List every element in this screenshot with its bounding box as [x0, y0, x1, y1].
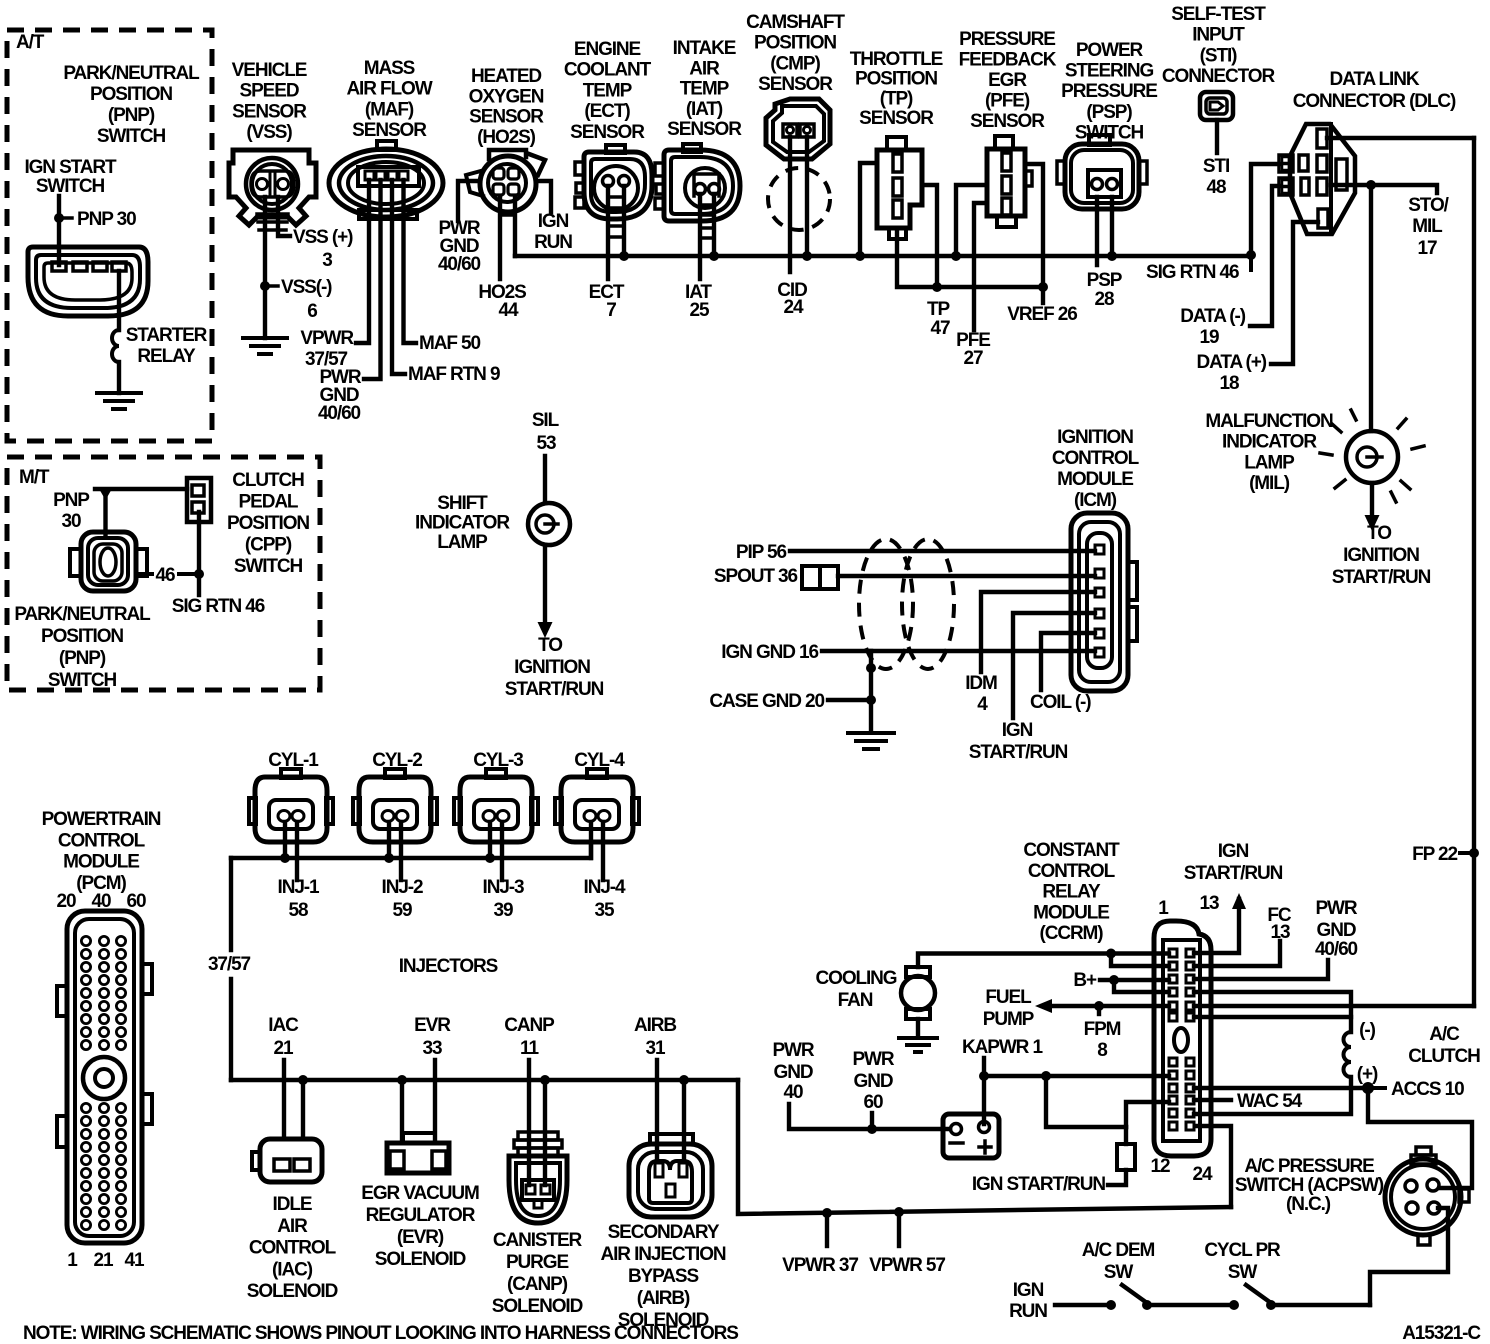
IAT pin bracket — [694, 174, 719, 196]
svg-text:DATA (+): DATA (+) — [1197, 352, 1267, 373]
svg-text:POSITION: POSITION — [227, 513, 309, 534]
svg-text:(PNP): (PNP) — [59, 648, 106, 669]
node IAC bus junction dot — [298, 1075, 308, 1085]
connector PNP switch (A/T) middle shell — [36, 255, 140, 308]
svg-text:(-): (-) — [1359, 1020, 1375, 1041]
svg-text:47: 47 — [931, 318, 950, 339]
svg-text:GND: GND — [854, 1071, 893, 1092]
wire B+ to CCRM pin 4 — [1114, 980, 1169, 992]
injector CYL-4 left tab — [555, 798, 562, 824]
svg-text:(HO2S): (HO2S) — [477, 127, 536, 148]
node injector bus dot CYL-2 — [384, 853, 394, 863]
wire CCRM right margin link — [1194, 1004, 1474, 1008]
CCRM oval slot — [1174, 1028, 1188, 1052]
svg-text:ENGINE: ENGINE — [574, 39, 641, 60]
AIRB cavity — [649, 1161, 692, 1203]
VSS boot — [257, 214, 288, 230]
svg-text:VPWR: VPWR — [300, 328, 354, 349]
wire MAF PWR GND — [364, 180, 381, 379]
DLC slot 4 — [1318, 209, 1328, 228]
svg-text:19: 19 — [1200, 327, 1219, 348]
svg-text:SENSOR: SENSOR — [667, 119, 742, 140]
wire PWR GND 40 stub — [789, 1104, 950, 1129]
CCRM pin R2 — [1186, 962, 1194, 970]
svg-text:(TP): (TP) — [880, 88, 913, 109]
node PNP 30 junction dot — [54, 213, 64, 223]
connector PSP outer shell — [1065, 144, 1139, 209]
node FP 22 junction dot — [1469, 848, 1479, 858]
connector AIRB top tab — [650, 1134, 693, 1144]
A/C clutch coil — [1344, 1032, 1351, 1077]
svg-text:PNP: PNP — [53, 490, 90, 511]
wire DLC STO/MIL — [1331, 185, 1437, 193]
node injector bus dot CYL-3 — [485, 853, 495, 863]
CCRM pin L8 — [1169, 1071, 1177, 1079]
svg-text:POWERTRAIN: POWERTRAIN — [42, 809, 161, 830]
PCM pin holes top block — [81, 936, 125, 1049]
connector injector CYL-4 outer shell — [561, 777, 633, 842]
svg-text:AIR: AIR — [277, 1216, 308, 1237]
svg-text:(ECT): (ECT) — [584, 101, 630, 122]
svg-text:35: 35 — [595, 900, 615, 921]
connector TP top tab — [887, 137, 906, 150]
ground symbol (cooling fan) — [899, 1038, 937, 1052]
PCM left tab 1 — [57, 986, 67, 1016]
svg-text:FPM: FPM — [1084, 1019, 1121, 1040]
CANP top bar 1 — [518, 1132, 558, 1140]
wire MAF VPWR 37/57 — [356, 180, 369, 343]
wire CANP right — [543, 1080, 547, 1185]
svg-text:IGN GND 16: IGN GND 16 — [721, 642, 818, 663]
wire HO2S 44 stub — [498, 196, 502, 279]
connector VSS inner ring 2 — [252, 164, 292, 204]
connector ECT inner circle — [594, 166, 638, 210]
pin 2 of PNP switch — [73, 262, 87, 271]
MAF pin 2 — [376, 171, 385, 180]
svg-text:IGNITION: IGNITION — [1343, 545, 1419, 566]
VSS pin 1 — [257, 179, 268, 190]
svg-text:A/T: A/T — [16, 32, 45, 53]
ICM pin 4 — [1095, 609, 1104, 618]
wire IDM 4 — [981, 592, 1095, 672]
battery terminal + — [979, 1122, 990, 1133]
wire ECT 7 stub — [606, 186, 610, 279]
IAT left tab 3 — [655, 198, 664, 209]
DLC left stub connector A — [1279, 155, 1293, 172]
connector PFE body — [987, 149, 1025, 216]
SPOUT inline connector — [802, 566, 838, 589]
ECT left tab 2 — [576, 183, 584, 193]
PFE slot 3 — [1002, 198, 1011, 215]
svg-text:PUMP: PUMP — [983, 1009, 1035, 1030]
svg-text:37/57: 37/57 — [208, 954, 251, 975]
svg-text:AIR INJECTION: AIR INJECTION — [600, 1244, 725, 1265]
svg-text:PWR: PWR — [772, 1040, 814, 1061]
svg-text:RELAY: RELAY — [1042, 882, 1101, 903]
svg-text:AIR FLOW: AIR FLOW — [346, 79, 432, 100]
CCRM pin R12 — [1186, 1122, 1194, 1130]
svg-text:EGR VACUUM: EGR VACUUM — [361, 1183, 479, 1204]
svg-text:FAN: FAN — [838, 990, 873, 1011]
CANP top bar 2 — [514, 1140, 562, 1148]
node TP 47 junction dot — [932, 282, 942, 292]
wire PIP 56 — [790, 549, 1095, 553]
svg-text:MAF 50: MAF 50 — [419, 333, 481, 354]
svg-text:(ICM): (ICM) — [1074, 490, 1117, 511]
node switch dot 3 — [1229, 1300, 1239, 1310]
ACPSW pin 4 — [1428, 1202, 1440, 1214]
svg-text:AIRB: AIRB — [634, 1015, 676, 1036]
CANP top bar 3 — [518, 1148, 558, 1156]
connector TP body — [877, 150, 922, 228]
wire CYCL PR SW to ACPSW — [1271, 1303, 1370, 1307]
connector CCRM inner shell — [1163, 940, 1200, 1141]
svg-text:PWR: PWR — [852, 1049, 894, 1070]
CCRM pin R8 — [1186, 1071, 1194, 1079]
svg-text:(VSS): (VSS) — [246, 122, 292, 143]
node injector bus dot CYL-1 — [280, 853, 290, 863]
shield dashed oval left — [859, 539, 913, 669]
svg-text:(CMP): (CMP) — [770, 53, 820, 74]
node KAPWR-CCRM junction dot — [1041, 1071, 1051, 1081]
CANP pin 1 — [526, 1185, 535, 1194]
node MIL arrowhead — [1365, 515, 1380, 531]
connector CPP switch body — [187, 478, 211, 522]
CCRM pin L2 — [1169, 962, 1177, 970]
wire DATA (+) 18 — [1271, 222, 1318, 364]
connector PNP switch (A/T) inner shell — [44, 263, 132, 300]
svg-text:GND: GND — [774, 1062, 813, 1083]
svg-text:TP: TP — [927, 299, 951, 320]
connector PSP top tab — [1089, 135, 1110, 145]
wire PSP 28 stub — [1095, 197, 1099, 265]
wire KAPWR branch down to fuse line — [1046, 1076, 1126, 1127]
wire DLC to MIL lamp — [1369, 185, 1373, 431]
SIL lamp bulb — [528, 503, 570, 545]
cooling fan motor bottom tab — [906, 1009, 930, 1019]
wire SIG RTN bus — [515, 254, 1251, 259]
MIL lamp filament — [1357, 447, 1377, 467]
svg-text:CONSTANT: CONSTANT — [1023, 840, 1120, 861]
connector ACPSW outer circle — [1385, 1159, 1461, 1235]
svg-text:CONTROL: CONTROL — [1052, 448, 1140, 469]
svg-text:VSS(-): VSS(-) — [281, 277, 332, 298]
HO2S pin 2 — [508, 168, 519, 179]
MAF top tab — [377, 141, 396, 150]
CCRM pin L10 — [1169, 1096, 1177, 1104]
HO2S pin 1 — [493, 168, 504, 179]
injector CYL-4 pin 1 — [584, 811, 596, 822]
svg-text:20: 20 — [57, 891, 76, 912]
svg-text:INJ-1: INJ-1 — [278, 877, 320, 898]
svg-text:TO: TO — [1367, 523, 1391, 544]
fuse — [1117, 1144, 1135, 1170]
svg-text:21: 21 — [94, 1250, 114, 1271]
switch blade A/C DEM SW — [1122, 1285, 1147, 1303]
svg-text:SOLENOID: SOLENOID — [492, 1296, 583, 1317]
svg-text:AIR: AIR — [689, 58, 720, 79]
connector HO2S inner circle — [488, 164, 526, 202]
wire DATA (-) 19 — [1250, 186, 1280, 326]
wire right margin vertical — [1472, 138, 1476, 1006]
node fan line junction dot — [1106, 949, 1116, 959]
svg-text:31: 31 — [646, 1038, 666, 1059]
battery terminal - — [951, 1124, 962, 1135]
connector HO2S outer circle — [480, 156, 536, 212]
svg-text:INPUT: INPUT — [1192, 25, 1245, 46]
MIL lamp rays — [1332, 424, 1341, 432]
battery - mark — [950, 1141, 963, 1145]
wire KAPWR vertical — [982, 1058, 986, 1124]
wire IGN START/RUN to ICM — [1013, 613, 1095, 718]
svg-text:IGNITION: IGNITION — [514, 657, 590, 678]
CCRM pin R4 — [1186, 988, 1194, 996]
svg-text:SPOUT 36: SPOUT 36 — [714, 566, 798, 587]
connector MAF inner ellipse — [348, 162, 424, 204]
svg-text:SENSOR: SENSOR — [859, 108, 934, 129]
wire IAC right — [301, 1080, 305, 1139]
svg-text:(IAT): (IAT) — [686, 99, 723, 120]
TP bottom tab — [889, 228, 906, 239]
AIRB center pin — [666, 1184, 675, 1197]
pin 3 of PNP switch — [93, 262, 107, 271]
svg-text:(PFE): (PFE) — [985, 91, 1030, 112]
svg-text:44: 44 — [499, 300, 519, 321]
svg-text:13: 13 — [1271, 922, 1290, 943]
connector ACPSW top tab — [1416, 1147, 1431, 1155]
HO2S top-right tab — [529, 154, 545, 175]
wire SIG RTN label stub — [1249, 255, 1253, 270]
connector EVR solenoid body — [387, 1143, 449, 1173]
injector CYL-2 pin 2 — [396, 811, 408, 822]
svg-text:SENSOR: SENSOR — [970, 111, 1045, 132]
CANP pin 2 — [541, 1185, 550, 1194]
CPP pin 2 — [192, 502, 204, 513]
svg-text:PEDAL: PEDAL — [239, 492, 299, 513]
svg-text:DATA LINK: DATA LINK — [1330, 69, 1420, 90]
svg-text:IGN START: IGN START — [24, 157, 117, 178]
svg-text:27: 27 — [964, 348, 983, 369]
svg-text:CONTROL: CONTROL — [58, 830, 146, 851]
svg-text:58: 58 — [289, 900, 308, 921]
ICM pin 5 — [1095, 629, 1104, 638]
svg-text:REGULATOR: REGULATOR — [366, 1205, 476, 1226]
CCRM pin L6 — [1169, 1013, 1177, 1021]
connector PNP switch (A/T) outer shell — [28, 247, 148, 316]
CCRM pin L5 — [1169, 1002, 1177, 1010]
CCRM pin R9 — [1186, 1084, 1194, 1092]
svg-text:33: 33 — [423, 1038, 442, 1059]
connector MAF outer ellipse — [329, 149, 443, 217]
SIL lamp filament — [536, 515, 554, 533]
svg-text:MASS: MASS — [364, 58, 415, 79]
svg-text:SIL: SIL — [532, 410, 560, 431]
injector CYL-1 pin 2 — [292, 811, 304, 822]
svg-text:NOTE: WIRING SCHEMATIC SHOWS P: NOTE: WIRING SCHEMATIC SHOWS PINOUT LOOK… — [23, 1323, 738, 1344]
wire FUEL PUMP arrow line — [1051, 1004, 1169, 1008]
DLC left slot A — [1299, 155, 1308, 171]
svg-text:START/RUN: START/RUN — [505, 679, 604, 700]
wire IGN GND 16 — [822, 649, 1095, 653]
svg-text:3: 3 — [322, 250, 332, 271]
IAT left tab 1 — [655, 163, 664, 176]
svg-text:STEERING: STEERING — [1065, 61, 1154, 82]
connector ACPSW inner circle — [1391, 1165, 1455, 1229]
battery box — [943, 1114, 999, 1158]
ECT boot rungs — [608, 197, 624, 237]
wire injector VPWR bus — [231, 842, 591, 858]
svg-text:ACCS 10: ACCS 10 — [1391, 1079, 1464, 1100]
svg-text:25: 25 — [690, 300, 710, 321]
connector AIRB solenoid inner — [638, 1152, 703, 1209]
wire HO2S PWR GND 40/60 — [458, 181, 479, 221]
CCRM pin R11 — [1186, 1109, 1194, 1117]
wire stub VSS(-) — [269, 284, 278, 288]
injector CYL-1 pin 1 — [278, 811, 290, 822]
node KAPWR junction dot — [979, 1071, 989, 1081]
AIRB pin 1 — [655, 1163, 663, 1177]
wire HO2S to SIG RTN bus — [513, 196, 517, 256]
svg-text:13: 13 — [1200, 893, 1219, 914]
svg-text:IGN: IGN — [1218, 841, 1249, 862]
svg-text:PARK/NEUTRAL: PARK/NEUTRAL — [63, 63, 200, 84]
wire CANP left — [527, 1060, 531, 1185]
wire PNP(M/T) to 46 label — [136, 572, 152, 576]
svg-text:INJ-3: INJ-3 — [483, 877, 524, 898]
connector PCM inner shell — [75, 919, 134, 1236]
connector PNP switch (M/T) outer shell — [81, 532, 136, 591]
injector CYL-1 right tab — [326, 798, 333, 824]
HO2S boot rung — [500, 213, 515, 217]
injector CYL-3 top tab — [486, 769, 506, 778]
svg-text:VPWR 37: VPWR 37 — [782, 1255, 858, 1276]
injector CYL-2 top tab — [385, 769, 405, 778]
ICM right bump 1 — [1128, 562, 1137, 600]
svg-text:SOLENOID: SOLENOID — [247, 1281, 338, 1302]
HO2S left shoulder — [466, 171, 483, 196]
node AIRB bus junction dot — [679, 1075, 689, 1085]
CCRM pin L1 — [1169, 949, 1177, 957]
svg-text:A/C: A/C — [1429, 1024, 1460, 1045]
svg-text:IDM: IDM — [965, 673, 997, 694]
svg-text:40/60: 40/60 — [318, 403, 361, 424]
wire PNP pin4 to starter relay coil — [117, 271, 121, 330]
svg-text:SWITCH: SWITCH — [234, 556, 303, 577]
svg-text:STARTER: STARTER — [126, 325, 208, 346]
svg-text:FP 22: FP 22 — [1412, 844, 1457, 865]
connector PNP switch (M/T) inner shell — [94, 544, 122, 581]
connector IAT outer shell — [664, 150, 740, 221]
PCM bolt hole inner — [95, 1069, 113, 1087]
wire CID 24 stub — [788, 137, 792, 272]
IAC pin 1 — [274, 1159, 290, 1171]
wire SIG RTN to DLC — [1251, 164, 1280, 255]
svg-text:THROTTLE: THROTTLE — [850, 49, 943, 70]
wire TP 47 — [922, 185, 937, 287]
svg-text:PSP: PSP — [1087, 270, 1123, 291]
ground symbol (ICM) — [848, 733, 894, 749]
injector CYL-2 right tab — [430, 798, 437, 824]
ICM pin 1 — [1095, 545, 1104, 554]
PCM right tab 2 — [142, 1094, 152, 1124]
svg-text:SENSOR: SENSOR — [352, 120, 427, 141]
svg-text:INDICATOR: INDICATOR — [415, 513, 510, 534]
svg-text:LAMP: LAMP — [1244, 452, 1295, 473]
wire CCRM to A/C clutch coil — [1194, 992, 1351, 1032]
svg-text:EVR: EVR — [414, 1015, 451, 1036]
svg-text:60: 60 — [127, 891, 146, 912]
svg-text:PRESSURE: PRESSURE — [959, 29, 1055, 50]
svg-text:8: 8 — [1097, 1040, 1107, 1061]
connector injector CYL-1 outer shell — [255, 777, 327, 842]
injector CYL-4 inner shell — [575, 800, 619, 829]
wire VPWR bus up to CCRM — [1195, 1126, 1231, 1207]
wire stub to PNP 30 label — [63, 216, 72, 220]
wire AIRB right — [682, 1080, 686, 1162]
DLC slot 1 — [1317, 129, 1327, 148]
IAT pin 2 — [709, 184, 720, 195]
battery + mark — [979, 1141, 991, 1153]
CCRM pin L12 — [1169, 1122, 1177, 1130]
MAF pin 3 — [388, 171, 397, 180]
pin 4 of PNP switch — [112, 262, 126, 271]
connector PNP switch (M/T) middle shell — [88, 538, 128, 585]
node IGN arrowhead (CCRM) — [1232, 893, 1246, 909]
connector MAF middle ellipse — [339, 156, 433, 210]
svg-text:START/RUN: START/RUN — [969, 742, 1068, 763]
wire TP VREF side to bus — [860, 163, 877, 256]
svg-text:SOLENOID: SOLENOID — [375, 1249, 466, 1270]
wire down to PNP connector (M/T) — [103, 495, 107, 534]
injector CYL-1 left tab — [249, 798, 256, 824]
wire injector CYL-2 left pin to bus — [387, 822, 391, 858]
MAF pin 4 — [399, 171, 408, 180]
ICM pin 6 — [1095, 648, 1104, 657]
svg-text:CANISTER: CANISTER — [493, 1230, 583, 1251]
svg-text:STO/: STO/ — [1408, 195, 1449, 216]
node SIL arrowhead — [538, 622, 553, 638]
ECT pin 2 — [619, 176, 630, 187]
svg-text:GND: GND — [1317, 920, 1356, 941]
wire junction up to CPP switch — [197, 512, 201, 574]
svg-text:HEATED: HEATED — [471, 66, 541, 87]
CCRM pin R6 — [1186, 1013, 1194, 1021]
svg-text:POSITION: POSITION — [90, 84, 172, 105]
svg-text:VREF 26: VREF 26 — [1007, 304, 1077, 325]
CCRM pin L9 — [1169, 1084, 1177, 1092]
injector CYL-2 left tab — [353, 798, 360, 824]
wire SPOUT 36 — [838, 574, 1095, 578]
svg-text:CONTROL: CONTROL — [249, 1238, 337, 1259]
shield dashed oval right — [902, 539, 954, 669]
wire fuse to IGN START/RUN label — [1108, 1170, 1126, 1185]
svg-text:IGN START/RUN: IGN START/RUN — [972, 1174, 1105, 1195]
PFE bottom tab — [997, 216, 1016, 227]
connector PCM outer shell — [67, 911, 142, 1243]
wire PSP to SIG RTN bus — [1110, 197, 1114, 256]
DLC left slot B — [1301, 178, 1309, 195]
connector DLC body hexagon — [1290, 124, 1355, 234]
connector injector CYL-2 outer shell — [359, 777, 431, 842]
node CMP bus junction dot — [802, 251, 812, 261]
node PSP bus junction dot — [1107, 251, 1117, 261]
HO2S pin 3 — [493, 184, 504, 195]
ground symbol (VSS) — [243, 338, 287, 354]
ICM pin column — [1087, 533, 1112, 668]
svg-text:PNP 30: PNP 30 — [77, 209, 136, 230]
ACPSW pin 3 — [1406, 1202, 1418, 1214]
wire fuse link down — [1124, 1127, 1128, 1144]
